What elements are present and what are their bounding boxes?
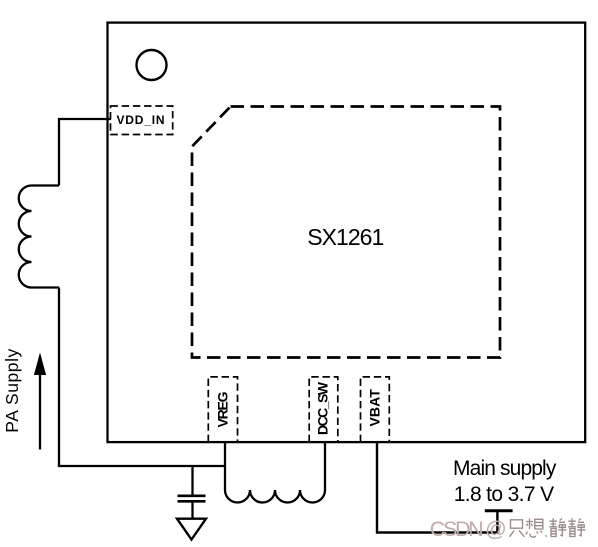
pin VBAT box	[361, 377, 390, 442]
inductor L1 (PA supply choke)	[19, 186, 59, 288]
svg-text:VDD_IN: VDD_IN	[117, 113, 165, 127]
pin DCC_SW box	[309, 377, 338, 442]
glyph zhi	[510, 520, 525, 537]
svg-text:VREG: VREG	[214, 391, 230, 427]
svg-text:1.8 to 3.7 V: 1.8 to 3.7 V	[454, 483, 554, 506]
wire VDD_IN to PA supply node	[59, 119, 111, 186]
capacitor C1 stem bottom	[191, 502, 193, 518]
capacitor C1 stem top	[191, 466, 193, 494]
dot	[545, 535, 546, 536]
main supply terminal T-bar	[485, 509, 513, 512]
svg-text:DCC_SW: DCC_SW	[315, 381, 331, 435]
watermark chinese characters 只想.静静	[510, 518, 586, 537]
glyph jing 1	[549, 518, 566, 536]
svg-text:CSDN @: CSDN @	[430, 517, 507, 541]
PA Supply arrow	[34, 353, 46, 450]
pin VREG box	[208, 377, 237, 442]
wire L1 to bottom rail	[59, 288, 225, 467]
glyph jing 2	[568, 518, 585, 536]
wire VBAT to main supply terminal	[377, 441, 497, 533]
inductor L2 (DC-DC buck inductor)	[225, 490, 325, 503]
capacitor C1 plates	[178, 496, 206, 502]
svg-text:SX1261: SX1261	[307, 224, 384, 250]
glyph xiang	[526, 519, 543, 538]
svg-text:VBAT: VBAT	[366, 389, 382, 427]
die outline (dashed, chamfered corner)	[192, 107, 500, 358]
svg-text:Main supply: Main supply	[453, 457, 557, 480]
pin VDD_IN box	[111, 106, 173, 135]
pin 1 indicator dot	[137, 50, 167, 80]
wire L2 to DCC_SW pin	[324, 441, 326, 490]
chip package outline U1 SX1261	[108, 23, 586, 443]
wire VREG pin down	[224, 441, 226, 490]
svg-text:PA Supply: PA Supply	[2, 348, 22, 432]
ground symbol	[177, 519, 206, 540]
